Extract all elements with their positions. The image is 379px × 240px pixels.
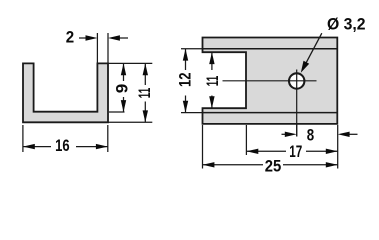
svg-text:12: 12: [175, 73, 194, 88]
dim 25 right arrow: [326, 162, 338, 167]
top view body with notch: [203, 38, 338, 124]
dim 8 left leader: [282, 133, 293, 135]
top wall inner edge line: [203, 48, 338, 50]
svg-text:25: 25: [265, 156, 282, 175]
dim 16 line right: [76, 146, 108, 148]
dim 11b down arrow: [209, 96, 214, 108]
extension line bottom right (dim 16): [107, 125, 109, 152]
extension line wall inner bottom (dim 12): [181, 112, 203, 114]
dim 11b line upper: [211, 52, 213, 70]
dim 11 down arrow: [143, 110, 148, 122]
dim 9 up arrow: [121, 63, 126, 75]
extension line wall inner (dim 2): [96, 33, 98, 63]
dim 11b up arrow: [209, 52, 214, 64]
dim 11 line upper: [144, 63, 146, 85]
extension line hole center bottom: [296, 124, 298, 137]
dim 9 line lower: [123, 97, 125, 112]
dim 12 line lower: [185, 96, 187, 113]
dim 2 right arrow: [108, 35, 120, 40]
dim 16 left arrow: [23, 144, 35, 149]
dim 2 left leader: [79, 37, 93, 39]
extension line wall outer (dim 2): [107, 33, 109, 63]
dim 8 right arrow: [338, 132, 350, 137]
dim 17 line left: [246, 150, 286, 152]
dim 8 left arrow: [285, 132, 297, 137]
extension line left edge bottom: [202, 125, 204, 169]
dim 25 line left: [203, 164, 264, 166]
hole horizontal centerline: [223, 80, 317, 82]
dim 11 up arrow: [143, 63, 148, 75]
dim 25 left arrow: [203, 162, 215, 167]
dim 16 line left: [23, 146, 51, 148]
extension line right edge bottom: [337, 125, 339, 169]
bottom wall inner edge line: [203, 112, 338, 114]
dim 8 right leader: [342, 133, 358, 135]
svg-text:2: 2: [66, 28, 74, 47]
extension line bottom left (dim 16): [22, 125, 24, 152]
dim 25 line right: [283, 164, 338, 166]
svg-text:11: 11: [135, 88, 154, 99]
extension line inner bottom: [109, 111, 125, 113]
svg-text:9: 9: [112, 84, 131, 93]
svg-text:Ø 3,2: Ø 3,2: [327, 14, 366, 33]
dim 11 line lower: [144, 102, 146, 123]
svg-text:17: 17: [289, 142, 302, 161]
dim 17 left arrow: [246, 149, 258, 154]
extension line outer bottom right: [108, 121, 152, 123]
svg-text:11: 11: [203, 76, 222, 87]
hole circle: [289, 73, 304, 88]
svg-text:16: 16: [55, 136, 70, 155]
dim 17 line right: [306, 150, 338, 152]
extension line notch bottom: [245, 125, 247, 155]
extension line top edge right: [108, 62, 152, 64]
dim 9 down arrow: [121, 100, 126, 112]
dim 9 line upper: [123, 63, 125, 81]
svg-text:8: 8: [307, 125, 314, 144]
extension line wall inner top (dim 12): [181, 48, 203, 50]
dim 2 left arrow: [86, 35, 98, 40]
hole vertical centerline: [296, 70, 298, 137]
dim 2 right leader: [112, 37, 128, 39]
dim 12 down arrow: [183, 101, 188, 113]
leader arrow: [301, 61, 309, 73]
dim 17 right arrow: [326, 149, 338, 154]
dim 12 up arrow: [183, 49, 188, 61]
dim 12 line upper: [185, 49, 187, 70]
dim 16 right arrow: [96, 144, 108, 149]
leader line: [305, 33, 322, 65]
dim 11b line lower: [211, 96, 213, 109]
front view U-channel body: [23, 63, 108, 122]
